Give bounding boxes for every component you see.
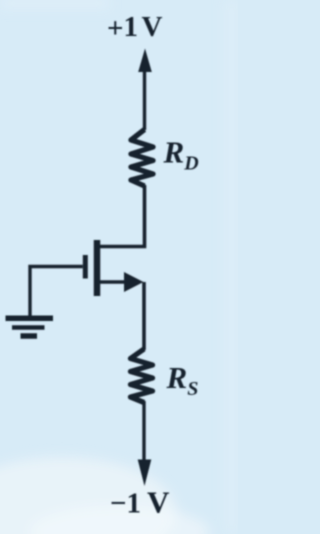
transistor Q1 source lead with arrowhead — [97, 272, 144, 292]
paper pale streak top edge — [0, 0, 110, 7]
transistor Q1 channel bar — [94, 240, 101, 296]
svg-text:−1V: −1V — [110, 485, 170, 520]
paper pale patch bottom-mid — [30, 506, 210, 534]
wire gate to ground — [30, 267, 83, 317]
resistor RS zigzag — [131, 349, 153, 403]
transistor Q1 gate bar — [83, 255, 88, 279]
svg-text:+1V: +1V — [107, 11, 163, 45]
node VDD arrow (+1 V supply, arrowhead up) — [138, 49, 152, 131]
node VSS arrow (-1 V supply, arrowhead down) — [138, 401, 152, 486]
ground symbol — [6, 318, 54, 336]
paper pale patch bottom-left — [0, 457, 177, 534]
paper pale band right edge — [225, 0, 238, 534]
resistor RD zigzag — [131, 130, 153, 187]
wire drain vertical and horizontal to transistor — [97, 185, 145, 247]
wire source vertical to RS — [142, 282, 146, 350]
